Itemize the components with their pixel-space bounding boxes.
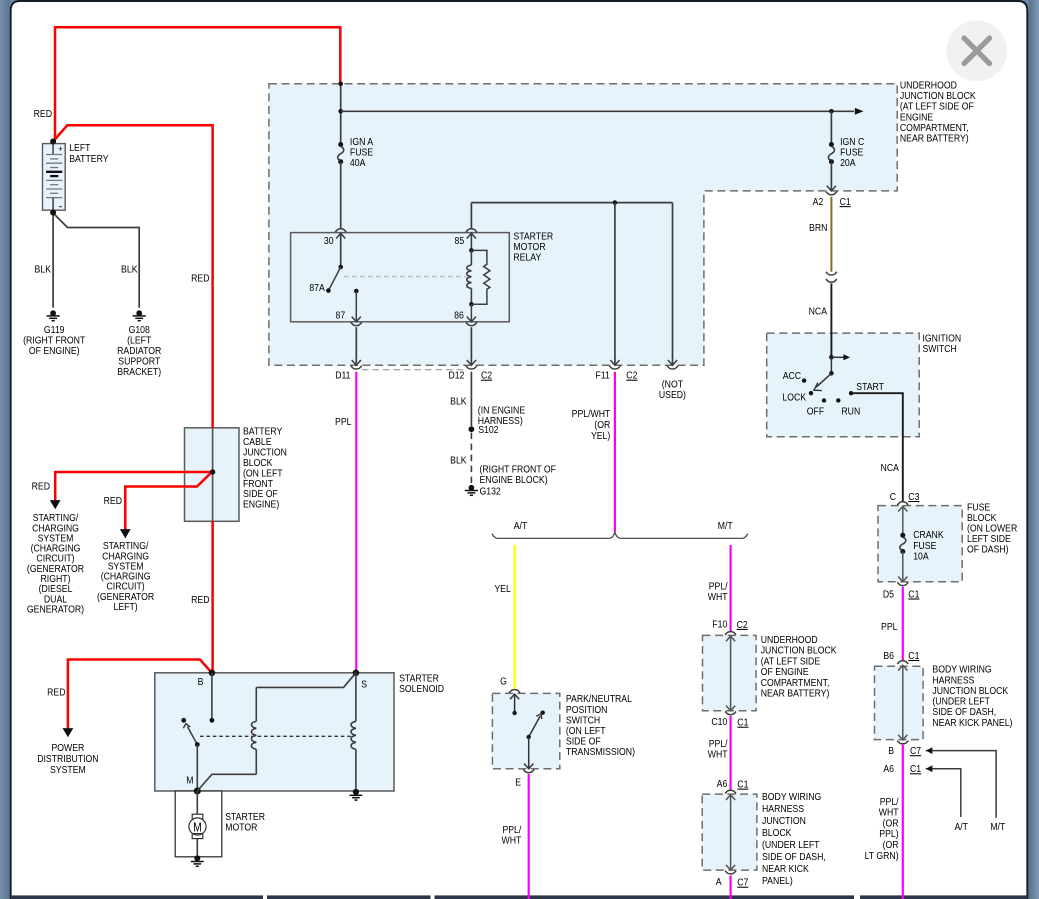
svg-text:+: + (58, 143, 63, 154)
svg-text:D12: D12 (448, 370, 464, 382)
svg-text:TRANSMISSION): TRANSMISSION) (566, 746, 635, 758)
svg-text:C1: C1 (737, 717, 748, 729)
svg-text:JUNCTION: JUNCTION (762, 815, 806, 827)
svg-text:M/T: M/T (718, 520, 733, 532)
svg-text:SIDE OF DASH,: SIDE OF DASH, (762, 851, 826, 863)
svg-text:D11: D11 (335, 370, 350, 382)
svg-text:C1: C1 (908, 589, 919, 601)
svg-text:M/T: M/T (990, 821, 1005, 833)
svg-text:C2: C2 (737, 619, 748, 631)
svg-text:BATTERY: BATTERY (69, 153, 109, 165)
svg-text:87A: 87A (309, 282, 325, 294)
svg-text:BRN: BRN (809, 222, 827, 234)
svg-text:87: 87 (336, 310, 346, 322)
svg-text:M: M (193, 822, 202, 835)
svg-text:MOTOR: MOTOR (225, 822, 257, 834)
svg-text:S102: S102 (478, 424, 498, 436)
svg-text:START: START (856, 381, 884, 393)
svg-text:BLK: BLK (35, 264, 52, 276)
svg-text:OF DASH): OF DASH) (967, 544, 1009, 556)
svg-text:A: A (716, 876, 722, 888)
svg-text:YEL): YEL) (591, 430, 610, 442)
svg-text:F10: F10 (712, 619, 727, 631)
svg-text:WHT: WHT (708, 591, 728, 603)
svg-text:WHT: WHT (501, 835, 521, 847)
svg-text:30: 30 (324, 235, 334, 247)
svg-text:RED: RED (47, 687, 65, 699)
svg-text:C2: C2 (626, 370, 637, 382)
svg-text:C1: C1 (910, 763, 921, 775)
svg-text:USED): USED) (659, 389, 686, 401)
svg-text:C1: C1 (737, 779, 748, 791)
svg-text:B6: B6 (883, 650, 894, 662)
svg-text:B: B (198, 676, 204, 688)
svg-text:NCA: NCA (881, 462, 900, 474)
svg-text:BLK: BLK (121, 264, 138, 276)
svg-text:A/T: A/T (514, 520, 528, 532)
svg-text:RELAY: RELAY (513, 252, 541, 264)
svg-text:G: G (500, 676, 507, 688)
svg-text:C2: C2 (481, 370, 492, 382)
svg-text:C: C (890, 491, 896, 503)
svg-text:LT GRN): LT GRN) (865, 850, 899, 862)
svg-text:RUN: RUN (841, 406, 860, 418)
svg-text:C1: C1 (840, 196, 851, 208)
svg-text:NEAR BATTERY): NEAR BATTERY) (761, 688, 830, 700)
svg-text:G132: G132 (480, 486, 501, 498)
svg-text:C7: C7 (737, 877, 748, 889)
svg-text:86: 86 (454, 310, 464, 322)
svg-text:BRACKET): BRACKET) (117, 366, 161, 378)
svg-text:NEAR KICK: NEAR KICK (762, 863, 809, 875)
svg-text:C10: C10 (711, 716, 727, 728)
svg-text:PPL: PPL (335, 416, 352, 428)
svg-text:B: B (888, 745, 894, 757)
svg-text:RED: RED (191, 273, 209, 285)
svg-text:85: 85 (455, 235, 465, 247)
svg-text:S: S (361, 679, 367, 691)
svg-text:LEFT): LEFT) (114, 601, 138, 613)
svg-text:RED: RED (34, 108, 52, 120)
svg-text:NEAR KICK PANEL): NEAR KICK PANEL) (932, 717, 1012, 729)
svg-text:NCA: NCA (809, 306, 828, 318)
svg-text:BLOCK: BLOCK (762, 827, 792, 839)
svg-text:RED: RED (104, 495, 122, 507)
svg-text:NEAR BATTERY): NEAR BATTERY) (900, 133, 969, 145)
svg-text:GENERATOR): GENERATOR) (27, 604, 84, 616)
svg-text:BLK: BLK (450, 455, 467, 467)
svg-text:BLK: BLK (450, 396, 467, 408)
svg-text:E: E (515, 777, 521, 789)
svg-text:C3: C3 (908, 491, 919, 503)
svg-text:PANEL): PANEL) (762, 875, 793, 887)
svg-text:LOCK: LOCK (782, 392, 806, 404)
svg-text:RED: RED (191, 594, 209, 606)
svg-text:A6: A6 (717, 778, 728, 790)
svg-text:WHT: WHT (708, 749, 728, 761)
svg-text:HARNESS: HARNESS (762, 803, 804, 815)
svg-text:BODY WIRING: BODY WIRING (762, 791, 821, 803)
svg-text:20A: 20A (840, 157, 856, 169)
svg-text:C1: C1 (908, 650, 919, 662)
svg-text:RED: RED (32, 481, 50, 493)
svg-text:SYSTEM: SYSTEM (50, 764, 86, 776)
svg-text:A2: A2 (813, 196, 824, 208)
svg-text:F11: F11 (595, 370, 609, 382)
svg-text:SWITCH: SWITCH (923, 343, 957, 355)
svg-text:YEL: YEL (494, 583, 511, 595)
svg-text:PPL: PPL (881, 621, 898, 633)
svg-text:40A: 40A (350, 157, 366, 169)
svg-text:ACC: ACC (783, 370, 801, 382)
svg-text:(UNDER LEFT: (UNDER LEFT (762, 839, 820, 851)
svg-text:C7: C7 (910, 745, 921, 757)
svg-text:ENGINE): ENGINE) (243, 499, 279, 511)
svg-text:OF ENGINE): OF ENGINE) (29, 345, 80, 357)
svg-text:OFF: OFF (807, 406, 824, 418)
svg-text:ENGINE BLOCK): ENGINE BLOCK) (480, 474, 548, 486)
svg-text:10A: 10A (913, 551, 929, 563)
svg-text:M: M (186, 775, 193, 787)
svg-text:D5: D5 (883, 589, 894, 601)
svg-text:A/T: A/T (954, 821, 968, 833)
svg-text:A6: A6 (883, 763, 894, 775)
svg-text:SOLENOID: SOLENOID (399, 683, 444, 695)
